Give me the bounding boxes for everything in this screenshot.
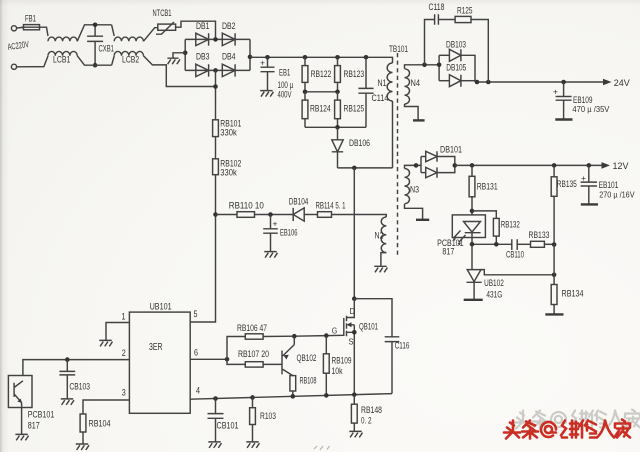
- node AC input terminal N: [11, 64, 16, 69]
- diode DB105: [439, 80, 449, 82]
- capacitor EB106: [270, 215, 272, 252]
- node junction R103: [250, 395, 255, 400]
- wire RB110 to DB104: [255, 214, 294, 216]
- wire bottom rail to LCB2: [112, 56, 115, 65]
- ground RB134: [545, 313, 563, 315]
- capacitor CB110: [512, 239, 517, 250]
- wire N3 bottom to ground: [405, 204, 423, 220]
- transistor QB102: [282, 336, 294, 375]
- wire N3 top to rectifier: [405, 165, 422, 168]
- node junction pin6: [225, 357, 230, 362]
- resistor RB124: [304, 92, 306, 128]
- wire RB107 branch: [227, 359, 245, 364]
- node junction drain top: [352, 296, 357, 301]
- svg-text:AC220V: AC220V: [7, 39, 30, 52]
- svg-text:C118: C118: [429, 2, 445, 12]
- svg-text:DB104: DB104: [289, 196, 309, 206]
- wire FB1 to LCB1: [42, 27, 49, 36]
- node junction reference: [552, 273, 557, 278]
- wire drain vertical: [353, 168, 355, 299]
- diode DB4: [222, 64, 235, 76]
- ground earth pin1: [99, 340, 112, 346]
- svg-text:431G: 431G: [486, 289, 502, 299]
- MOSFET QB101: [344, 316, 347, 337]
- node junction 12V rect output: [453, 163, 458, 168]
- svg-text:CB110: CB110: [506, 250, 524, 260]
- resistor RB110: [237, 212, 255, 218]
- svg-text:RB125: RB125: [344, 104, 365, 114]
- resistor RB109: [325, 336, 327, 396]
- node junction RB109 top: [324, 333, 329, 338]
- wire C118 to R125: [438, 19, 455, 21]
- winding N2 auxiliary: [381, 217, 386, 253]
- svg-text:470 µ /35V: 470 µ /35V: [572, 104, 609, 114]
- node junction drain branch: [352, 166, 357, 171]
- svg-text:LCB1: LCB1: [53, 55, 70, 65]
- wire bridge right vertical: [249, 39, 251, 70]
- node junction QB102 emitter: [292, 334, 297, 339]
- svg-text:330k: 330k: [220, 167, 237, 177]
- svg-text:0. 2: 0. 2: [361, 415, 372, 425]
- svg-text:RB107 20: RB107 20: [238, 349, 269, 359]
- wire LCB1 top to CXB1 top rail: [77, 25, 111, 42]
- node AC input terminal L: [11, 26, 16, 31]
- op-amp U1 controller UB101 box: [129, 312, 190, 413]
- optocoupler PCB101 LED box: [452, 215, 485, 238]
- diode DB104: [293, 208, 304, 221]
- node junction RB108 bottom: [291, 394, 296, 399]
- resistor RB102: [213, 159, 219, 175]
- ground earth CB103: [61, 399, 74, 405]
- svg-text:+: +: [273, 218, 278, 228]
- svg-text:RB109: RB109: [332, 356, 352, 366]
- svg-text:5: 5: [194, 309, 198, 319]
- svg-text:RB148: RB148: [361, 405, 382, 415]
- resistor RB101: [213, 120, 219, 137]
- svg-text:RB108: RB108: [300, 376, 317, 386]
- wire VCC line left: [216, 214, 238, 216]
- wire RB133 to divider column: [544, 243, 554, 245]
- node junction RB131 top: [470, 163, 475, 168]
- svg-text:+: +: [581, 173, 586, 183]
- wire between RB101 RB102: [215, 137, 217, 159]
- winding N4 secondary 24V: [405, 69, 410, 104]
- svg-text:RB134: RB134: [562, 289, 584, 299]
- svg-text:FB1: FB1: [25, 14, 36, 24]
- wire B+ rail: [250, 57, 393, 63]
- svg-text:DB3: DB3: [196, 52, 210, 62]
- shunt regulator UB102 431: [471, 244, 473, 269]
- optocoupler PCB101 transistor box: [8, 376, 32, 408]
- svg-text:CB103: CB103: [69, 382, 90, 392]
- svg-text:R103: R103: [260, 411, 276, 421]
- diode DB2: [222, 33, 235, 45]
- ground earth RB104: [76, 444, 89, 450]
- node junction C118 branch: [422, 63, 427, 68]
- svg-text:C116: C116: [395, 340, 410, 350]
- resistor RB133: [531, 241, 545, 247]
- capacitor C116: [385, 337, 400, 342]
- arrow 12V output: [602, 162, 611, 169]
- svg-text:N4: N4: [411, 78, 421, 88]
- svg-text:QB101: QB101: [359, 322, 378, 332]
- svg-text:817: 817: [28, 420, 40, 430]
- svg-text:3: 3: [122, 388, 126, 398]
- resistor RB123: [337, 57, 339, 92]
- wire R125 down to 24V line: [471, 20, 488, 83]
- capacitor C118: [435, 14, 439, 24]
- svg-text:N3: N3: [410, 185, 419, 195]
- stray scan marks: [314, 446, 330, 450]
- diode DB101 lower: [421, 172, 426, 174]
- svg-text:G: G: [332, 325, 338, 335]
- svg-text:RB104: RB104: [89, 419, 111, 429]
- ground N3 return: [416, 219, 429, 221]
- pin 2 wire to optocoupler: [23, 360, 129, 376]
- svg-text:RB110 10: RB110 10: [229, 200, 264, 210]
- svg-text:DB1: DB1: [196, 21, 210, 31]
- wire RB107 to QB102 base: [263, 363, 282, 365]
- node junction C114 top: [364, 55, 369, 60]
- node junction CB103: [65, 357, 70, 362]
- svg-text:UB102: UB102: [484, 278, 504, 288]
- ground earth at bridge negative: [167, 58, 180, 64]
- node junction 24V line corner: [475, 80, 480, 85]
- transformer TB101 core: [397, 53, 399, 258]
- resistor RB122: [304, 57, 306, 92]
- node bridge negative junction: [183, 51, 188, 56]
- wire UB102 reference: [481, 270, 554, 275]
- resistor RB125: [337, 92, 339, 128]
- optocoupler LED arrows: [454, 231, 466, 243]
- node junction EB1: [265, 55, 270, 60]
- capacitor CXB1: [87, 36, 103, 41]
- ground EB101: [581, 203, 598, 205]
- diode DB106: [337, 127, 339, 168]
- pin 6 stub: [190, 358, 227, 360]
- wire feedback line: [472, 243, 512, 245]
- wire bridge left vertical: [184, 39, 186, 70]
- svg-text:EB101: EB101: [599, 180, 619, 190]
- svg-text:270 µ /16V: 270 µ /16V: [599, 190, 635, 200]
- svg-text:NTCB1: NTCB1: [153, 8, 172, 18]
- wire RB106 to gate rail: [263, 335, 344, 336]
- inductor LCB1 top winding: [48, 37, 77, 41]
- wire drain node to C116: [354, 299, 392, 337]
- resistor RB131: [471, 165, 473, 215]
- svg-text:RB114 5. 1: RB114 5. 1: [316, 200, 346, 210]
- node junction VCC column: [213, 212, 218, 217]
- wire AC L to fuse FB1: [17, 26, 24, 29]
- node junction RB132 top: [470, 209, 475, 214]
- wire LCB1 bottom to CXB1 bottom rail: [77, 56, 111, 65]
- svg-text:330k: 330k: [220, 128, 237, 138]
- svg-text:DB2: DB2: [222, 21, 236, 31]
- svg-text:D: D: [350, 306, 356, 316]
- diode DB1: [196, 33, 209, 45]
- wire DB106 to N1 bottom: [338, 167, 393, 169]
- capacitor CB103: [66, 360, 68, 399]
- node junction CB101: [213, 396, 218, 401]
- resistor R125: [455, 16, 471, 22]
- node junction CXB1 top: [93, 23, 98, 28]
- winding N3 secondary 12V: [405, 169, 410, 204]
- svg-text:TB101: TB101: [389, 44, 408, 54]
- ground earth CB101: [208, 442, 221, 448]
- wire clamp middle link: [305, 91, 338, 93]
- capacitor CB101: [215, 399, 217, 442]
- svg-text:24V: 24V: [614, 78, 631, 89]
- node junction source RB148: [352, 392, 357, 397]
- svg-text:400V: 400V: [278, 90, 292, 100]
- node bridge AC2 junction: [213, 68, 218, 73]
- node junction RB123 top: [335, 55, 340, 60]
- wire LCB2 top to NTCB1: [143, 28, 157, 42]
- svg-text:+: +: [260, 57, 265, 67]
- inductor LCB2 bottom winding: [114, 51, 143, 55]
- node junction source body: [352, 330, 357, 335]
- svg-text:QB102: QB102: [297, 353, 317, 363]
- wire N4 top to rectifier: [405, 65, 440, 69]
- wire LCB2 bottom to bridge AC2 node: [143, 56, 215, 87]
- resistor RB107: [245, 362, 263, 367]
- svg-text:S: S: [349, 336, 354, 346]
- inductor LCB2 top winding: [114, 37, 143, 41]
- svg-text:DB103: DB103: [446, 40, 466, 50]
- node junction clamp mid left: [303, 90, 308, 95]
- wire C118 R125 snubber branch: [425, 20, 435, 65]
- node bridge AC1 junction: [213, 37, 218, 42]
- svg-text:CXB1: CXB1: [99, 44, 114, 54]
- node junction clamp mid right: [335, 90, 340, 95]
- wire ground rail pin4: [190, 394, 392, 400]
- pin 1 stub and label: [106, 323, 129, 341]
- node junction EB106: [268, 212, 273, 217]
- node junction N3 top: [414, 163, 419, 168]
- resistor RB132: [493, 218, 499, 236]
- resistor RB104: [80, 414, 86, 432]
- svg-text:N2: N2: [375, 231, 384, 241]
- node junction CXB1 bottom: [93, 63, 98, 68]
- svg-text:DB101: DB101: [440, 145, 462, 155]
- ground UB102: [464, 299, 483, 301]
- capacitor EB109: [563, 82, 565, 120]
- capacitor EB1 bulk: [261, 67, 275, 72]
- resistor RB106: [245, 334, 263, 339]
- resistor R103: [252, 398, 254, 442]
- svg-text:3ER: 3ER: [149, 342, 163, 353]
- svg-text:4: 4: [196, 386, 200, 396]
- svg-text:DB4: DB4: [222, 52, 236, 62]
- svg-text:RB124: RB124: [310, 104, 331, 114]
- wire RB106 branch: [227, 337, 245, 360]
- diode DB103: [439, 54, 449, 56]
- winding N1 primary: [387, 63, 392, 101]
- wire DB101 right vertical: [437, 157, 455, 173]
- node junction DB106 top: [335, 125, 340, 130]
- svg-text:R125: R125: [457, 6, 473, 16]
- ground earth below N2: [374, 266, 387, 272]
- node junction RB135 top: [552, 163, 557, 168]
- wire AC N to LCB1 bottom: [17, 56, 48, 67]
- wire AC2 junction down to startup column: [215, 70, 217, 119]
- arrow 24V output: [603, 79, 612, 86]
- diode DB3: [196, 64, 209, 76]
- watermark red: [504, 420, 630, 439]
- ground earth below EB1: [260, 91, 273, 97]
- wire DB103 DB105 left vertical: [438, 55, 440, 80]
- svg-text:LCB2: LCB2: [122, 55, 139, 65]
- capacitor C114: [365, 57, 367, 127]
- node junction EB101: [587, 163, 592, 168]
- wire DB103 DB105 right vertical to 24V line: [461, 55, 475, 82]
- svg-text:2: 2: [122, 348, 126, 358]
- svg-text:RB106 47: RB106 47: [237, 323, 267, 333]
- svg-text:1: 1: [122, 312, 126, 322]
- resistor RB134: [551, 285, 557, 305]
- svg-text:12V: 12V: [613, 161, 630, 172]
- diode DB101 upper: [421, 156, 426, 158]
- wire DB101 left vertical: [420, 157, 422, 173]
- svg-text:DB106: DB106: [349, 138, 370, 148]
- svg-text:10k: 10k: [332, 366, 343, 376]
- wire bridge top branch: [185, 38, 250, 40]
- node junction RB109 bottom: [324, 393, 329, 398]
- ground earth R103: [246, 442, 259, 448]
- resistor RB108: [290, 376, 296, 391]
- wire bridge bottom branch: [185, 69, 250, 71]
- svg-text:817: 817: [442, 247, 454, 257]
- ground EB109: [555, 118, 572, 120]
- svg-text:6: 6: [194, 348, 198, 358]
- wire divider column: [553, 245, 555, 285]
- svg-text:PCB101: PCB101: [28, 410, 55, 420]
- svg-text:+: +: [553, 87, 558, 97]
- node junction divider mid: [552, 242, 557, 247]
- node junction DB103 input: [437, 63, 442, 68]
- wire RB132 branch: [472, 211, 496, 219]
- svg-text:RB132: RB132: [501, 220, 520, 230]
- node junction RB122 top: [303, 55, 308, 60]
- wire RB114 to N2 top: [332, 215, 387, 218]
- ground N4 return: [413, 119, 425, 121]
- wire top rail to LCB2: [112, 25, 115, 36]
- svg-text:N1: N1: [378, 78, 387, 88]
- wire NTCB1 to bridge AC1 node: [176, 21, 216, 39]
- watermark ghost: [514, 410, 640, 429]
- node bridge positive output: [248, 55, 253, 60]
- node junction R125 return: [486, 80, 491, 85]
- inductor LCB1 bottom winding: [48, 51, 77, 55]
- svg-text:DB105: DB105: [446, 63, 466, 73]
- node junction EB109: [561, 80, 566, 85]
- wire 24V output line: [475, 81, 604, 83]
- svg-text:EB106: EB106: [280, 228, 298, 238]
- wire CB110 to RB133: [517, 243, 530, 245]
- svg-text:UB101: UB101: [150, 302, 172, 313]
- pin 3 wire to RB104: [83, 400, 129, 414]
- resistor RB135: [553, 165, 555, 244]
- capacitor EB101: [588, 165, 590, 204]
- svg-text:RB135: RB135: [557, 179, 577, 189]
- resistor RB148: [353, 395, 355, 431]
- thermistor NTCB1: [158, 24, 176, 30]
- wire startup column to VCC node and pin5: [190, 175, 215, 322]
- wire DB104 to RB114: [304, 214, 317, 216]
- wire bridge negative to earth stub: [173, 53, 185, 58]
- svg-text:CB101: CB101: [217, 421, 239, 431]
- svg-text:RB131: RB131: [477, 182, 498, 192]
- fuse FB1: [24, 25, 40, 30]
- node junction RB132 bottom: [494, 242, 499, 247]
- svg-text:RB122: RB122: [311, 69, 332, 79]
- wire clamp bottom link: [305, 126, 366, 128]
- wire 12V output line: [455, 164, 603, 166]
- svg-text:EB1: EB1: [279, 68, 290, 78]
- svg-text:C114: C114: [372, 93, 389, 103]
- ground earth RB148: [349, 431, 362, 437]
- wire N1 bottom: [392, 101, 394, 168]
- ground earth below EB106: [264, 252, 277, 258]
- resistor RB114: [318, 212, 332, 218]
- svg-text:RB123: RB123: [344, 69, 365, 79]
- node junction AC2 bottom wire: [213, 84, 218, 89]
- svg-text:RB133: RB133: [529, 230, 550, 240]
- LED of optocoupler PCB101: [464, 222, 481, 245]
- svg-text:100 µ: 100 µ: [278, 80, 294, 90]
- ground earth optocoupler: [15, 434, 28, 440]
- wire N2 bottom to earth: [381, 253, 386, 266]
- wire N4 bottom to ground: [405, 104, 419, 120]
- phototransistor of PCB101: [14, 381, 23, 434]
- node junction LED cathode: [470, 242, 475, 247]
